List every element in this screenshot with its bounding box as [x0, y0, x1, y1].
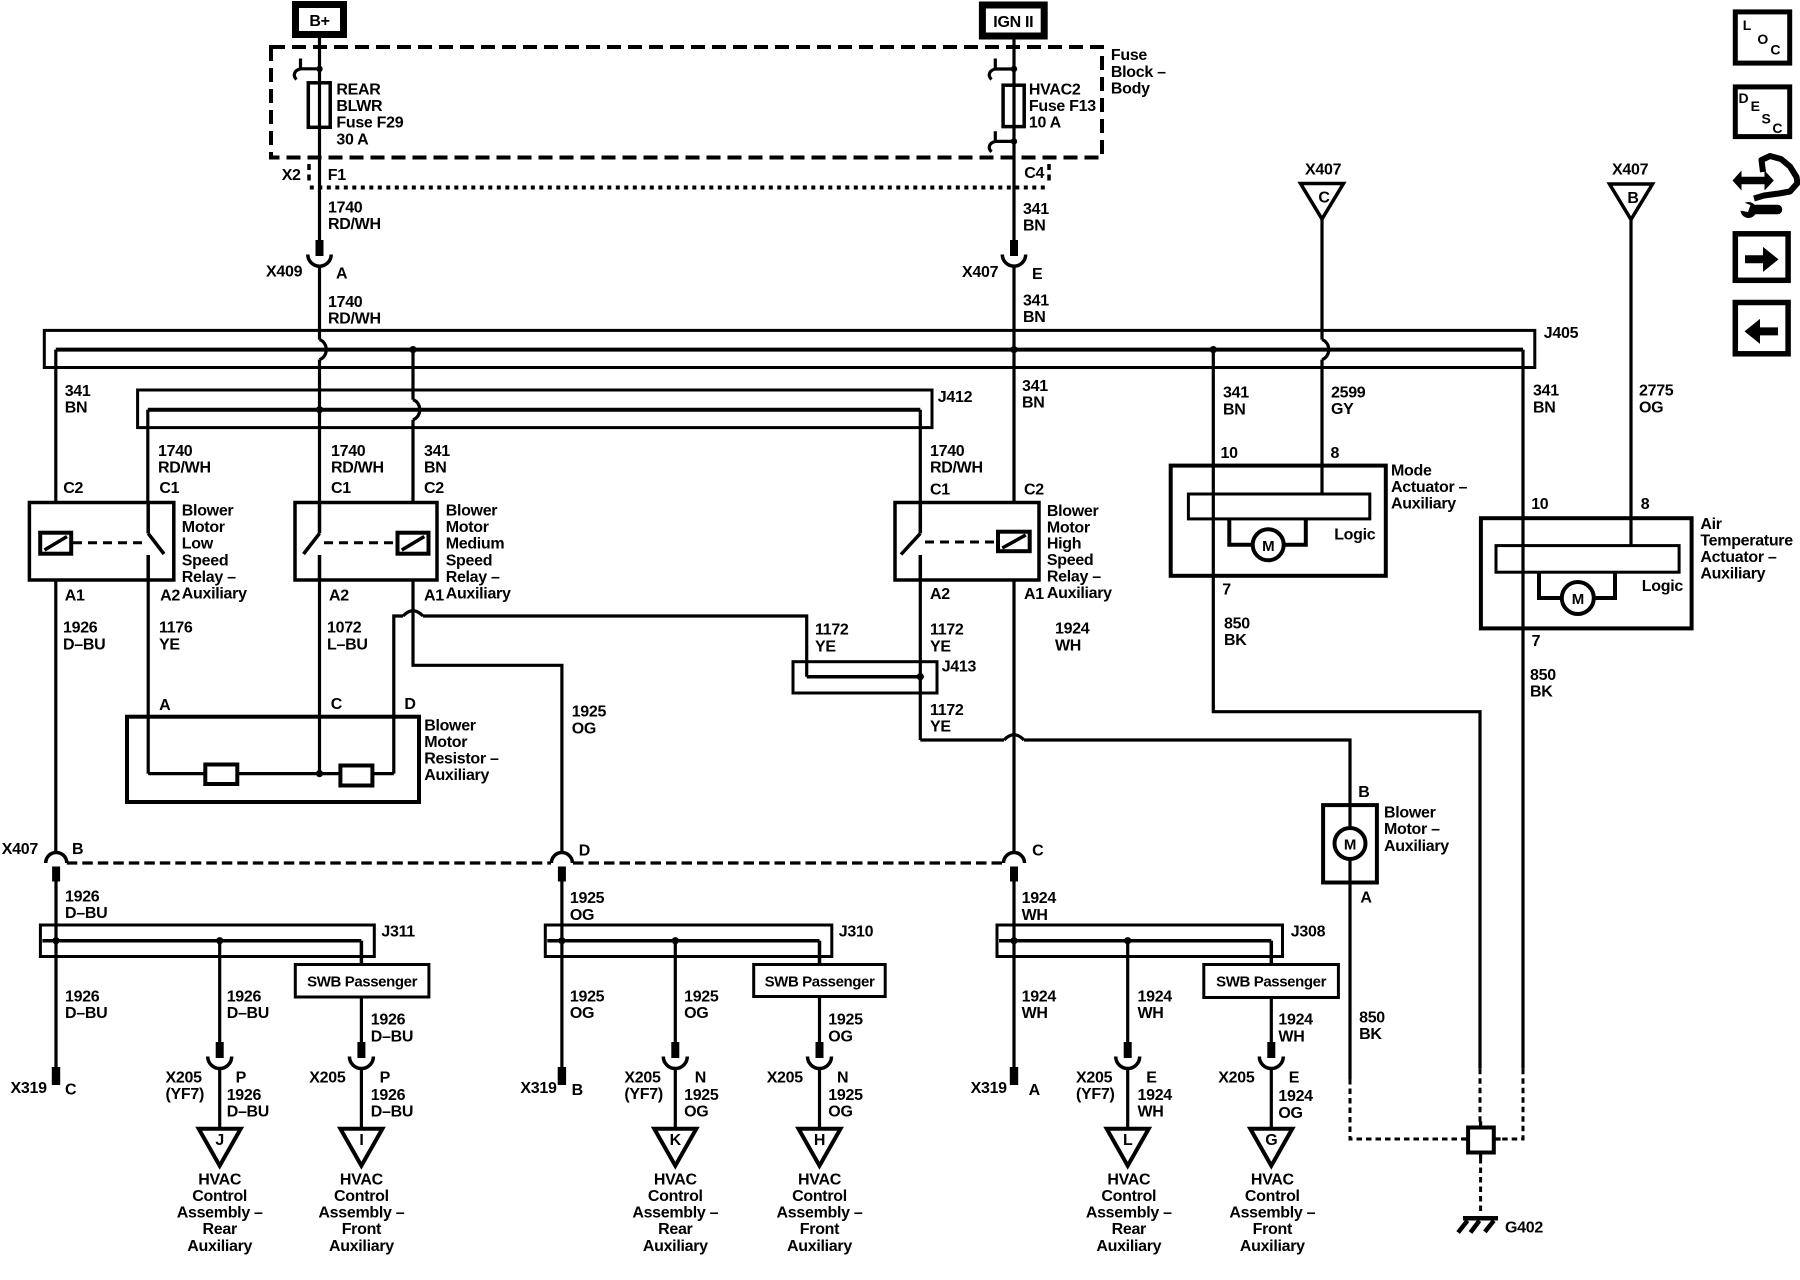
svg-text:1925: 1925	[570, 989, 605, 1006]
connector X407 pin C	[1004, 843, 1045, 882]
wire 1924 WH from SWB to X205 E	[1270, 998, 1273, 1043]
wire 850 BK from air temp pin 7	[1521, 628, 1524, 1068]
svg-text:1740: 1740	[158, 443, 193, 460]
connector X205 (YF7) pin E	[1076, 1042, 1157, 1103]
svg-text:YE: YE	[930, 719, 951, 736]
svg-text:GY: GY	[1331, 401, 1354, 418]
svg-text:C: C	[331, 696, 343, 713]
connector X319 pin B	[520, 1067, 582, 1099]
wire 1924 WH label (above X205 YF7 E)	[1138, 989, 1173, 1023]
svg-text:Blower: Blower	[446, 503, 498, 520]
wire 1924 WH from X407 C to J308 and X319 A	[1010, 882, 1017, 1068]
power symbol B+	[296, 5, 344, 35]
svg-text:L: L	[1743, 17, 1752, 33]
wire to triangle G	[1270, 1070, 1273, 1129]
svg-text:HVAC: HVAC	[340, 1171, 384, 1188]
svg-text:Assembly –: Assembly –	[318, 1205, 404, 1222]
svg-text:X409: X409	[266, 263, 303, 280]
wire 1740 RD/WH J412 right drop to C1 high	[919, 410, 922, 503]
svg-text:10: 10	[1221, 445, 1239, 462]
svg-text:Control: Control	[648, 1188, 703, 1205]
wire to triangle I	[360, 1070, 363, 1129]
svg-text:S: S	[1762, 110, 1771, 126]
svg-text:Auxiliary: Auxiliary	[1391, 496, 1456, 513]
svg-text:Rear: Rear	[1112, 1221, 1146, 1238]
svg-text:1926: 1926	[371, 1087, 406, 1104]
wire 1926 D-BU from X407 B to J311 and X319 C	[52, 882, 59, 1068]
svg-text:X205: X205	[1076, 1070, 1113, 1087]
svg-text:J405: J405	[1544, 325, 1579, 342]
svg-text:Actuator –: Actuator –	[1391, 479, 1468, 496]
svg-text:SWB Passenger: SWB Passenger	[765, 974, 875, 991]
svg-text:OG: OG	[1278, 1105, 1302, 1122]
svg-text:WH: WH	[1022, 907, 1048, 924]
relay K3 blower motor high speed relay - auxiliary	[895, 482, 1112, 604]
svg-text:X407: X407	[962, 264, 999, 281]
svg-text:850: 850	[1359, 1010, 1385, 1027]
wire 850 BK dashed to splice S1	[1479, 1069, 1482, 1124]
svg-text:C: C	[65, 1082, 77, 1099]
svg-text:Body: Body	[1111, 80, 1150, 97]
ground G402	[1458, 1218, 1543, 1236]
svg-text:1926: 1926	[65, 989, 100, 1006]
wire 1924 WH label (above X319 A)	[1022, 989, 1057, 1023]
svg-text:(YF7): (YF7)	[1076, 1086, 1115, 1103]
connector label C4	[1024, 164, 1049, 184]
svg-text:D: D	[404, 696, 415, 713]
svg-text:BN: BN	[1533, 399, 1556, 416]
fuse block terminal clip (B+ side)	[294, 59, 322, 80]
svg-text:D–BU: D–BU	[227, 1005, 269, 1022]
svg-text:E: E	[1289, 1070, 1300, 1087]
svg-text:Speed: Speed	[446, 552, 493, 569]
svg-text:WH: WH	[1138, 1104, 1164, 1121]
svg-text:Mode: Mode	[1391, 463, 1432, 480]
svg-text:I: I	[359, 1132, 363, 1149]
svg-text:C1: C1	[331, 480, 351, 497]
svg-text:D–BU: D–BU	[371, 1104, 413, 1121]
svg-text:D–BU: D–BU	[227, 1104, 269, 1121]
svg-text:Blower: Blower	[1384, 805, 1436, 822]
svg-text:Auxiliary: Auxiliary	[1240, 1238, 1305, 1255]
wire 1924 WH from A1 high to X407 C	[1012, 580, 1015, 853]
svg-text:1172: 1172	[930, 622, 964, 639]
wire 1172 YE from A2 high through J413 to blower motor B (hops over 1924 WH)	[920, 580, 1350, 805]
svg-text:1925: 1925	[684, 1087, 719, 1104]
svg-text:Control: Control	[1245, 1188, 1300, 1205]
wire 850 BK label (air temp pin 7)	[1530, 667, 1556, 701]
svg-text:341: 341	[424, 443, 450, 460]
wire 1924 WH J308 tap to X205 (YF7)	[1124, 937, 1131, 1042]
icon swap arrows and wrench	[1733, 156, 1798, 218]
fuse block terminal clip (IGN upper)	[989, 59, 1017, 80]
svg-text:X407: X407	[1305, 162, 1342, 179]
wire 1172 YE label (right of corner, above J413)	[815, 622, 849, 656]
svg-text:Assembly –: Assembly –	[1229, 1205, 1315, 1222]
svg-text:Rear: Rear	[203, 1221, 237, 1238]
svg-text:J310: J310	[839, 924, 874, 941]
wire 1176 YE label (A2 low)	[159, 620, 193, 654]
svg-text:J412: J412	[938, 389, 973, 406]
relay K1 blower motor low speed relay - auxiliary	[29, 480, 247, 605]
wire 1924 WH label (A1 high)	[1055, 621, 1090, 655]
wire 1740 RD/WH label (above X409)	[328, 199, 381, 233]
svg-text:1924: 1924	[1278, 1088, 1313, 1105]
svg-text:N: N	[695, 1070, 706, 1087]
wire 1740 RD/WH label (above C1 medium)	[331, 443, 384, 477]
svg-text:D–BU: D–BU	[65, 905, 107, 922]
wire 1925 OG label (above X319 B)	[570, 989, 605, 1023]
connector I triangle HVAC control front	[340, 1129, 382, 1166]
wire 1925 OG J310 tap to X205 (YF7)	[672, 937, 679, 1042]
wire 1926 D-BU J311 tap to X205 (YF7)	[216, 937, 223, 1042]
svg-text:Speed: Speed	[1047, 552, 1094, 569]
icon back arrow box	[1735, 303, 1788, 354]
svg-text:RD/WH: RD/WH	[328, 216, 381, 233]
svg-text:Logic: Logic	[1642, 578, 1684, 595]
wire 2775 OG label	[1639, 383, 1674, 417]
svg-text:A1: A1	[1024, 586, 1044, 603]
wire to triangle L	[1126, 1070, 1129, 1129]
svg-text:Motor: Motor	[424, 734, 467, 751]
wire dashed to ground	[1479, 1158, 1482, 1213]
icon forward arrow box	[1735, 234, 1788, 280]
svg-text:Fuse F13: Fuse F13	[1029, 98, 1096, 115]
icon LOC box	[1735, 12, 1789, 63]
svg-text:Auxiliary: Auxiliary	[1384, 838, 1449, 855]
connector G triangle HVAC control front	[1250, 1129, 1292, 1166]
icon DESC box	[1735, 87, 1789, 137]
connector X319 pin C	[11, 1067, 78, 1099]
svg-text:WH: WH	[1022, 1005, 1048, 1022]
svg-text:341: 341	[1023, 201, 1049, 218]
wire 1924 WH label (SWB branch)	[1278, 1012, 1313, 1046]
svg-text:Blower: Blower	[424, 717, 476, 734]
svg-text:1926: 1926	[371, 1012, 406, 1029]
svg-text:341: 341	[1023, 292, 1049, 309]
svg-text:E: E	[1751, 98, 1760, 114]
wire 1924 OG label (below X205 E)	[1278, 1088, 1313, 1122]
svg-text:C4: C4	[1024, 165, 1044, 182]
svg-text:M: M	[1572, 591, 1584, 608]
svg-text:1924: 1924	[1022, 989, 1057, 1006]
connector X407 pin D	[551, 843, 590, 882]
svg-text:1924: 1924	[1278, 1012, 1313, 1029]
svg-text:J308: J308	[1291, 924, 1326, 941]
wire 1172 YE label (A2 high)	[930, 622, 964, 656]
svg-text:M: M	[1262, 538, 1274, 555]
connector X205 (YF7) pin P	[166, 1042, 247, 1103]
wire 1740 RD/WH label (below X409)	[328, 294, 381, 328]
svg-text:OG: OG	[572, 720, 596, 737]
svg-text:OG: OG	[1639, 399, 1663, 416]
wire 1925 OG label (below X205 N)	[828, 1087, 863, 1121]
svg-text:1072: 1072	[327, 620, 362, 637]
connector J triangle HVAC control rear	[199, 1129, 241, 1166]
svg-text:Control: Control	[192, 1188, 247, 1205]
svg-text:A: A	[1029, 1082, 1041, 1099]
wire from resistor pin D to J413 (hops over A1 medium wire)	[394, 611, 807, 774]
svg-text:RD/WH: RD/WH	[328, 310, 381, 327]
svg-text:Speed: Speed	[182, 552, 229, 569]
svg-text:Temperature: Temperature	[1700, 532, 1793, 549]
connector X205 (YF7) pin N	[624, 1042, 706, 1103]
fuse block body dashed outline	[271, 47, 1102, 158]
svg-text:D: D	[579, 843, 590, 860]
svg-text:Relay –: Relay –	[446, 569, 500, 586]
wire to triangle K	[674, 1070, 677, 1129]
svg-text:Medium: Medium	[446, 536, 505, 553]
label HVAC control assembly front auxiliary (G)	[1229, 1171, 1315, 1254]
svg-text:Blower: Blower	[1047, 503, 1099, 520]
option box SWB Passenger (J310)	[754, 965, 886, 997]
svg-text:1176: 1176	[159, 620, 193, 637]
svg-text:HVAC: HVAC	[654, 1171, 698, 1188]
svg-text:Auxiliary: Auxiliary	[187, 1238, 252, 1255]
svg-text:2599: 2599	[1331, 384, 1366, 401]
wire to triangle H	[818, 1070, 821, 1129]
svg-text:A2: A2	[329, 588, 349, 605]
fuse block terminal clip (IGN lower)	[989, 131, 1017, 152]
wire 341 BN label (below X407 E)	[1023, 292, 1049, 326]
wire 1925 OG label (above D)	[572, 704, 607, 738]
svg-text:C: C	[1318, 190, 1330, 207]
svg-text:RD/WH: RD/WH	[331, 459, 384, 476]
wire 341 BN label (above C2 medium)	[424, 443, 450, 477]
svg-text:1740: 1740	[328, 199, 363, 216]
svg-text:J: J	[215, 1132, 224, 1149]
svg-text:Logic: Logic	[1334, 527, 1376, 544]
svg-text:Relay –: Relay –	[1047, 569, 1101, 586]
wire 1925 OG label (SWB branch)	[828, 1012, 863, 1046]
svg-text:Control: Control	[792, 1188, 847, 1205]
svg-text:Air: Air	[1700, 516, 1721, 533]
svg-text:RD/WH: RD/WH	[930, 459, 983, 476]
svg-text:OG: OG	[684, 1104, 708, 1121]
wire 1924 WH J308 drop to SWB passenger	[1270, 941, 1274, 965]
wire 1072 L-BU label (A2 medium)	[327, 620, 368, 654]
svg-text:Motor: Motor	[182, 519, 225, 536]
wire 1924 WH label (below X205 YF7 E)	[1138, 1087, 1173, 1121]
svg-text:1925: 1925	[828, 1012, 863, 1029]
wire 1172 YE label (below J413)	[930, 702, 964, 736]
svg-text:Assembly –: Assembly –	[632, 1205, 718, 1222]
wire 1740 RD/WH J412 left drop to C1 low	[146, 410, 149, 503]
svg-text:7: 7	[1532, 633, 1541, 650]
svg-text:10 A: 10 A	[1029, 115, 1062, 132]
splice pack J311	[40, 924, 415, 957]
connector X319 pin A	[971, 1067, 1041, 1099]
svg-text:X205: X205	[1218, 1070, 1255, 1087]
svg-text:Assembly –: Assembly –	[777, 1205, 863, 1222]
svg-text:7: 7	[1222, 582, 1231, 599]
connector X407 pin C triangle	[1301, 162, 1344, 219]
svg-text:J311: J311	[381, 924, 415, 941]
svg-text:YE: YE	[930, 638, 951, 655]
wire 1176 YE from A2 low to resistor pin A	[147, 580, 150, 774]
svg-text:Auxiliary: Auxiliary	[329, 1238, 394, 1255]
svg-text:Auxiliary: Auxiliary	[424, 767, 489, 784]
wire 2599 GY label	[1331, 384, 1366, 418]
wire 1926 D-BU label (below B)	[65, 888, 107, 922]
svg-text:BN: BN	[1023, 309, 1046, 326]
wire 2599 GY from X407 C to mode actuator pin 8 (crosses J405)	[1322, 219, 1329, 494]
svg-text:10: 10	[1531, 496, 1549, 513]
svg-text:O: O	[1757, 31, 1768, 47]
splice pack J405	[44, 325, 1578, 367]
connector X407 dashed in-line (bottom)	[2, 841, 1005, 863]
wire 1925 OG from A1 medium to X407 D	[413, 580, 562, 853]
svg-text:BLWR: BLWR	[336, 98, 383, 115]
wire 1924 WH label (below C)	[1022, 890, 1057, 924]
splice pack J412	[138, 389, 973, 428]
wire 1925 OG label (below D)	[570, 890, 605, 924]
svg-text:N: N	[837, 1070, 848, 1087]
svg-text:Relay –: Relay –	[182, 569, 236, 586]
svg-text:1925: 1925	[684, 989, 719, 1006]
svg-text:Auxiliary: Auxiliary	[643, 1238, 708, 1255]
wire 1740 RD/WH label (above C1 high)	[930, 443, 983, 477]
svg-text:Front: Front	[1253, 1221, 1293, 1238]
svg-text:1925: 1925	[570, 890, 605, 907]
wire 341 BN tap to C2 medium (crosses J412)	[409, 346, 419, 503]
svg-text:BK: BK	[1530, 684, 1553, 701]
label HVAC control assembly rear auxiliary (J)	[177, 1171, 263, 1254]
wire 1740 RD/WH label (above C1 low)	[158, 443, 211, 477]
svg-text:Resistor –: Resistor –	[424, 751, 499, 768]
svg-text:8: 8	[1331, 445, 1340, 462]
connector X407 pin B	[46, 841, 84, 882]
svg-text:B: B	[1627, 190, 1638, 207]
svg-text:1926: 1926	[227, 989, 262, 1006]
wire 341 BN J405 left drop to C2 low	[54, 350, 57, 503]
svg-text:1172: 1172	[815, 622, 849, 639]
actuator M1 mode actuator - auxiliary	[1171, 445, 1468, 598]
svg-text:HVAC: HVAC	[1107, 1171, 1151, 1188]
svg-text:1172: 1172	[930, 702, 964, 719]
svg-text:A: A	[1360, 890, 1372, 907]
svg-text:OG: OG	[828, 1028, 852, 1045]
resistor R1 blower motor resistor - auxiliary	[127, 696, 499, 802]
wire 341 BN label (mode pin 10 column)	[1223, 385, 1249, 419]
wire 850 BK from blower motor A	[1348, 883, 1351, 1080]
wire 1925 OG label (above X205 YF7 N)	[684, 989, 719, 1023]
svg-text:1926: 1926	[63, 620, 98, 637]
svg-text:RD/WH: RD/WH	[158, 459, 211, 476]
svg-text:Auxiliary: Auxiliary	[446, 586, 511, 603]
relay K2 blower motor medium speed relay - auxiliary	[295, 480, 511, 605]
svg-text:Control: Control	[1101, 1188, 1156, 1205]
svg-text:1924: 1924	[1055, 621, 1090, 638]
svg-text:850: 850	[1224, 615, 1250, 632]
splice pack J308	[997, 924, 1326, 957]
wire 1926 D-BU from SWB to X205 P	[360, 997, 363, 1042]
label HVAC control assembly rear auxiliary (K)	[632, 1171, 718, 1254]
svg-text:D–BU: D–BU	[65, 1005, 107, 1022]
wire 1926 D-BU label (A1 low)	[63, 620, 105, 654]
option box SWB Passenger (J311)	[295, 965, 429, 998]
wire IGN II feed	[1012, 36, 1015, 242]
svg-text:Auxiliary: Auxiliary	[182, 586, 247, 603]
svg-text:X205: X205	[309, 1070, 346, 1087]
svg-text:HVAC: HVAC	[798, 1171, 842, 1188]
svg-text:L: L	[1123, 1132, 1133, 1149]
svg-text:(YF7): (YF7)	[624, 1086, 663, 1103]
svg-text:X319: X319	[11, 1080, 48, 1097]
svg-text:X205: X205	[166, 1070, 203, 1087]
wire 1740 RD/WH from X409 to J412 (crosses J405)	[320, 267, 327, 503]
svg-text:C2: C2	[424, 480, 444, 497]
svg-text:F1: F1	[328, 167, 346, 184]
wire 341 BN label (below C4)	[1023, 201, 1049, 235]
wire 1925 OG from SWB to X205 N	[818, 997, 821, 1043]
inline connector X409 pin A	[266, 240, 348, 282]
svg-text:OG: OG	[828, 1104, 852, 1121]
svg-text:A1: A1	[65, 588, 85, 605]
wire 1926 D-BU from A1 low to X407 B	[54, 580, 57, 853]
svg-text:1740: 1740	[328, 294, 363, 311]
svg-text:HVAC2: HVAC2	[1029, 82, 1081, 99]
wire 1926 D-BU label (above X205 YF7 P)	[227, 989, 269, 1023]
svg-text:Assembly –: Assembly –	[1086, 1205, 1172, 1222]
svg-text:HVAC: HVAC	[198, 1171, 242, 1188]
svg-text:Fuse F29: Fuse F29	[336, 115, 403, 132]
svg-text:X205: X205	[624, 1070, 661, 1087]
wire 1926 D-BU label (SWB branch)	[371, 1012, 413, 1046]
svg-text:B: B	[1358, 784, 1369, 801]
wire 1926 D-BU label (above X319 C)	[65, 989, 107, 1023]
svg-text:(YF7): (YF7)	[166, 1086, 205, 1103]
svg-text:341: 341	[65, 383, 91, 400]
connector L triangle HVAC control rear	[1107, 1129, 1149, 1166]
svg-text:Low: Low	[182, 536, 214, 553]
dotted harness boundary line	[310, 186, 1047, 190]
svg-text:M: M	[1344, 837, 1356, 854]
connector K triangle HVAC control rear	[654, 1129, 696, 1166]
svg-text:WH: WH	[1278, 1028, 1304, 1045]
svg-text:A: A	[336, 265, 348, 282]
svg-text:Assembly –: Assembly –	[177, 1205, 263, 1222]
motor B1 blower motor - auxiliary	[1323, 784, 1449, 907]
wire 850 BK from mode actuator pin 7	[1213, 576, 1480, 1069]
svg-text:REAR: REAR	[336, 82, 381, 99]
wire 1926 D-BU label (below X205 YF7 P)	[227, 1087, 269, 1121]
svg-text:OG: OG	[684, 1005, 708, 1022]
connector H triangle HVAC control front	[799, 1129, 841, 1166]
splice S1 ground junction	[1463, 1122, 1501, 1159]
connector X205 pin E	[1218, 1042, 1299, 1087]
svg-text:X407: X407	[2, 841, 39, 858]
wire 850 BK label (blower motor A)	[1359, 1010, 1385, 1044]
wire 341 BN tap to mode actuator pin 10	[1210, 346, 1217, 576]
connector label X2	[282, 164, 309, 184]
wire to triangle J	[218, 1070, 221, 1129]
svg-text:G: G	[1265, 1132, 1277, 1149]
svg-text:A1: A1	[424, 588, 444, 605]
wire 341 BN label (above C2 high)	[1022, 378, 1048, 412]
svg-text:1926: 1926	[65, 888, 100, 905]
svg-text:C: C	[1032, 843, 1044, 860]
connector X407 pin B triangle	[1610, 162, 1653, 220]
svg-text:850: 850	[1530, 667, 1556, 684]
svg-text:341: 341	[1223, 385, 1249, 402]
svg-text:X319: X319	[971, 1080, 1008, 1097]
label HVAC control assembly rear auxiliary (L)	[1086, 1171, 1172, 1254]
svg-text:1924: 1924	[1138, 989, 1173, 1006]
splice pack J413	[793, 659, 976, 693]
svg-text:IGN II: IGN II	[993, 14, 1033, 31]
svg-text:C: C	[1772, 120, 1782, 136]
